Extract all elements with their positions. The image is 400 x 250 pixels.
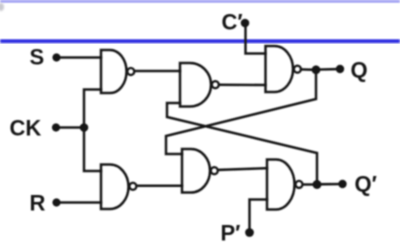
label Q-bar: [355, 172, 377, 197]
svg-text:C′: C′: [222, 10, 243, 35]
wire G4 output to G6: [218, 168, 267, 170]
nand gate G3 (CK,R): [101, 165, 136, 210]
nand gate G5 (output Q): [266, 46, 301, 92]
wire G1 output to G2: [135, 70, 180, 73]
wire S input: [57, 56, 102, 59]
wire CK to G1 lower input: [84, 90, 101, 128]
nand gate G2 (top middle): [180, 63, 219, 107]
wire C-bar drop to G5 upper input: [246, 23, 266, 54]
wire Q-bar feedback to G2 lower input: [167, 103, 317, 185]
label R: [30, 191, 46, 216]
node Q terminal dot: [336, 65, 344, 73]
wire G5 output to Q node: [301, 68, 316, 71]
wire Q feedback to G4 upper input: [166, 70, 316, 154]
top border line (light blue): [0, 0, 400, 3]
wire Q-bar junction to Q-bar terminal: [317, 183, 343, 186]
node R input dot: [52, 198, 60, 206]
svg-text:Q′: Q′: [355, 172, 377, 197]
label CK: [10, 116, 42, 141]
svg-text:Q: Q: [351, 58, 368, 83]
node CK junction: [80, 123, 89, 132]
nand gate G1 (S,CK): [101, 50, 134, 93]
node S input dot: [52, 53, 60, 61]
node Q junction: [312, 65, 321, 74]
node Q-bar terminal dot: [338, 180, 346, 188]
wire P-bar rise to G6 lower input: [250, 200, 268, 233]
corner artifact mark: [0, 3, 4, 11]
svg-text:P′: P′: [221, 221, 241, 246]
svg-text:CK: CK: [10, 116, 42, 141]
label C-bar: [222, 10, 243, 35]
svg-text:S: S: [30, 45, 45, 70]
node P-bar dot: [245, 228, 254, 237]
wire CK input: [56, 126, 84, 129]
svg-text:R: R: [30, 191, 46, 216]
nand gate G4 (bottom middle): [182, 149, 218, 193]
wire R input: [57, 201, 102, 204]
horizontal rule (blue divider): [0, 39, 400, 43]
wire G2 output to G5: [219, 84, 265, 87]
label S: [30, 45, 45, 70]
node C-bar dot: [241, 19, 250, 28]
wire CK to G3 upper input: [84, 128, 101, 172]
nand gate G6 (output Q-bar): [267, 160, 303, 210]
label P-bar: [221, 221, 241, 246]
wire Q junction to Q terminal: [316, 68, 340, 71]
wire G3 output to G4: [137, 185, 182, 188]
label Q: [351, 58, 368, 83]
wire G6 output to Q-bar node: [303, 183, 317, 186]
node CK input dot: [52, 123, 60, 131]
node Q-bar junction: [313, 180, 322, 189]
